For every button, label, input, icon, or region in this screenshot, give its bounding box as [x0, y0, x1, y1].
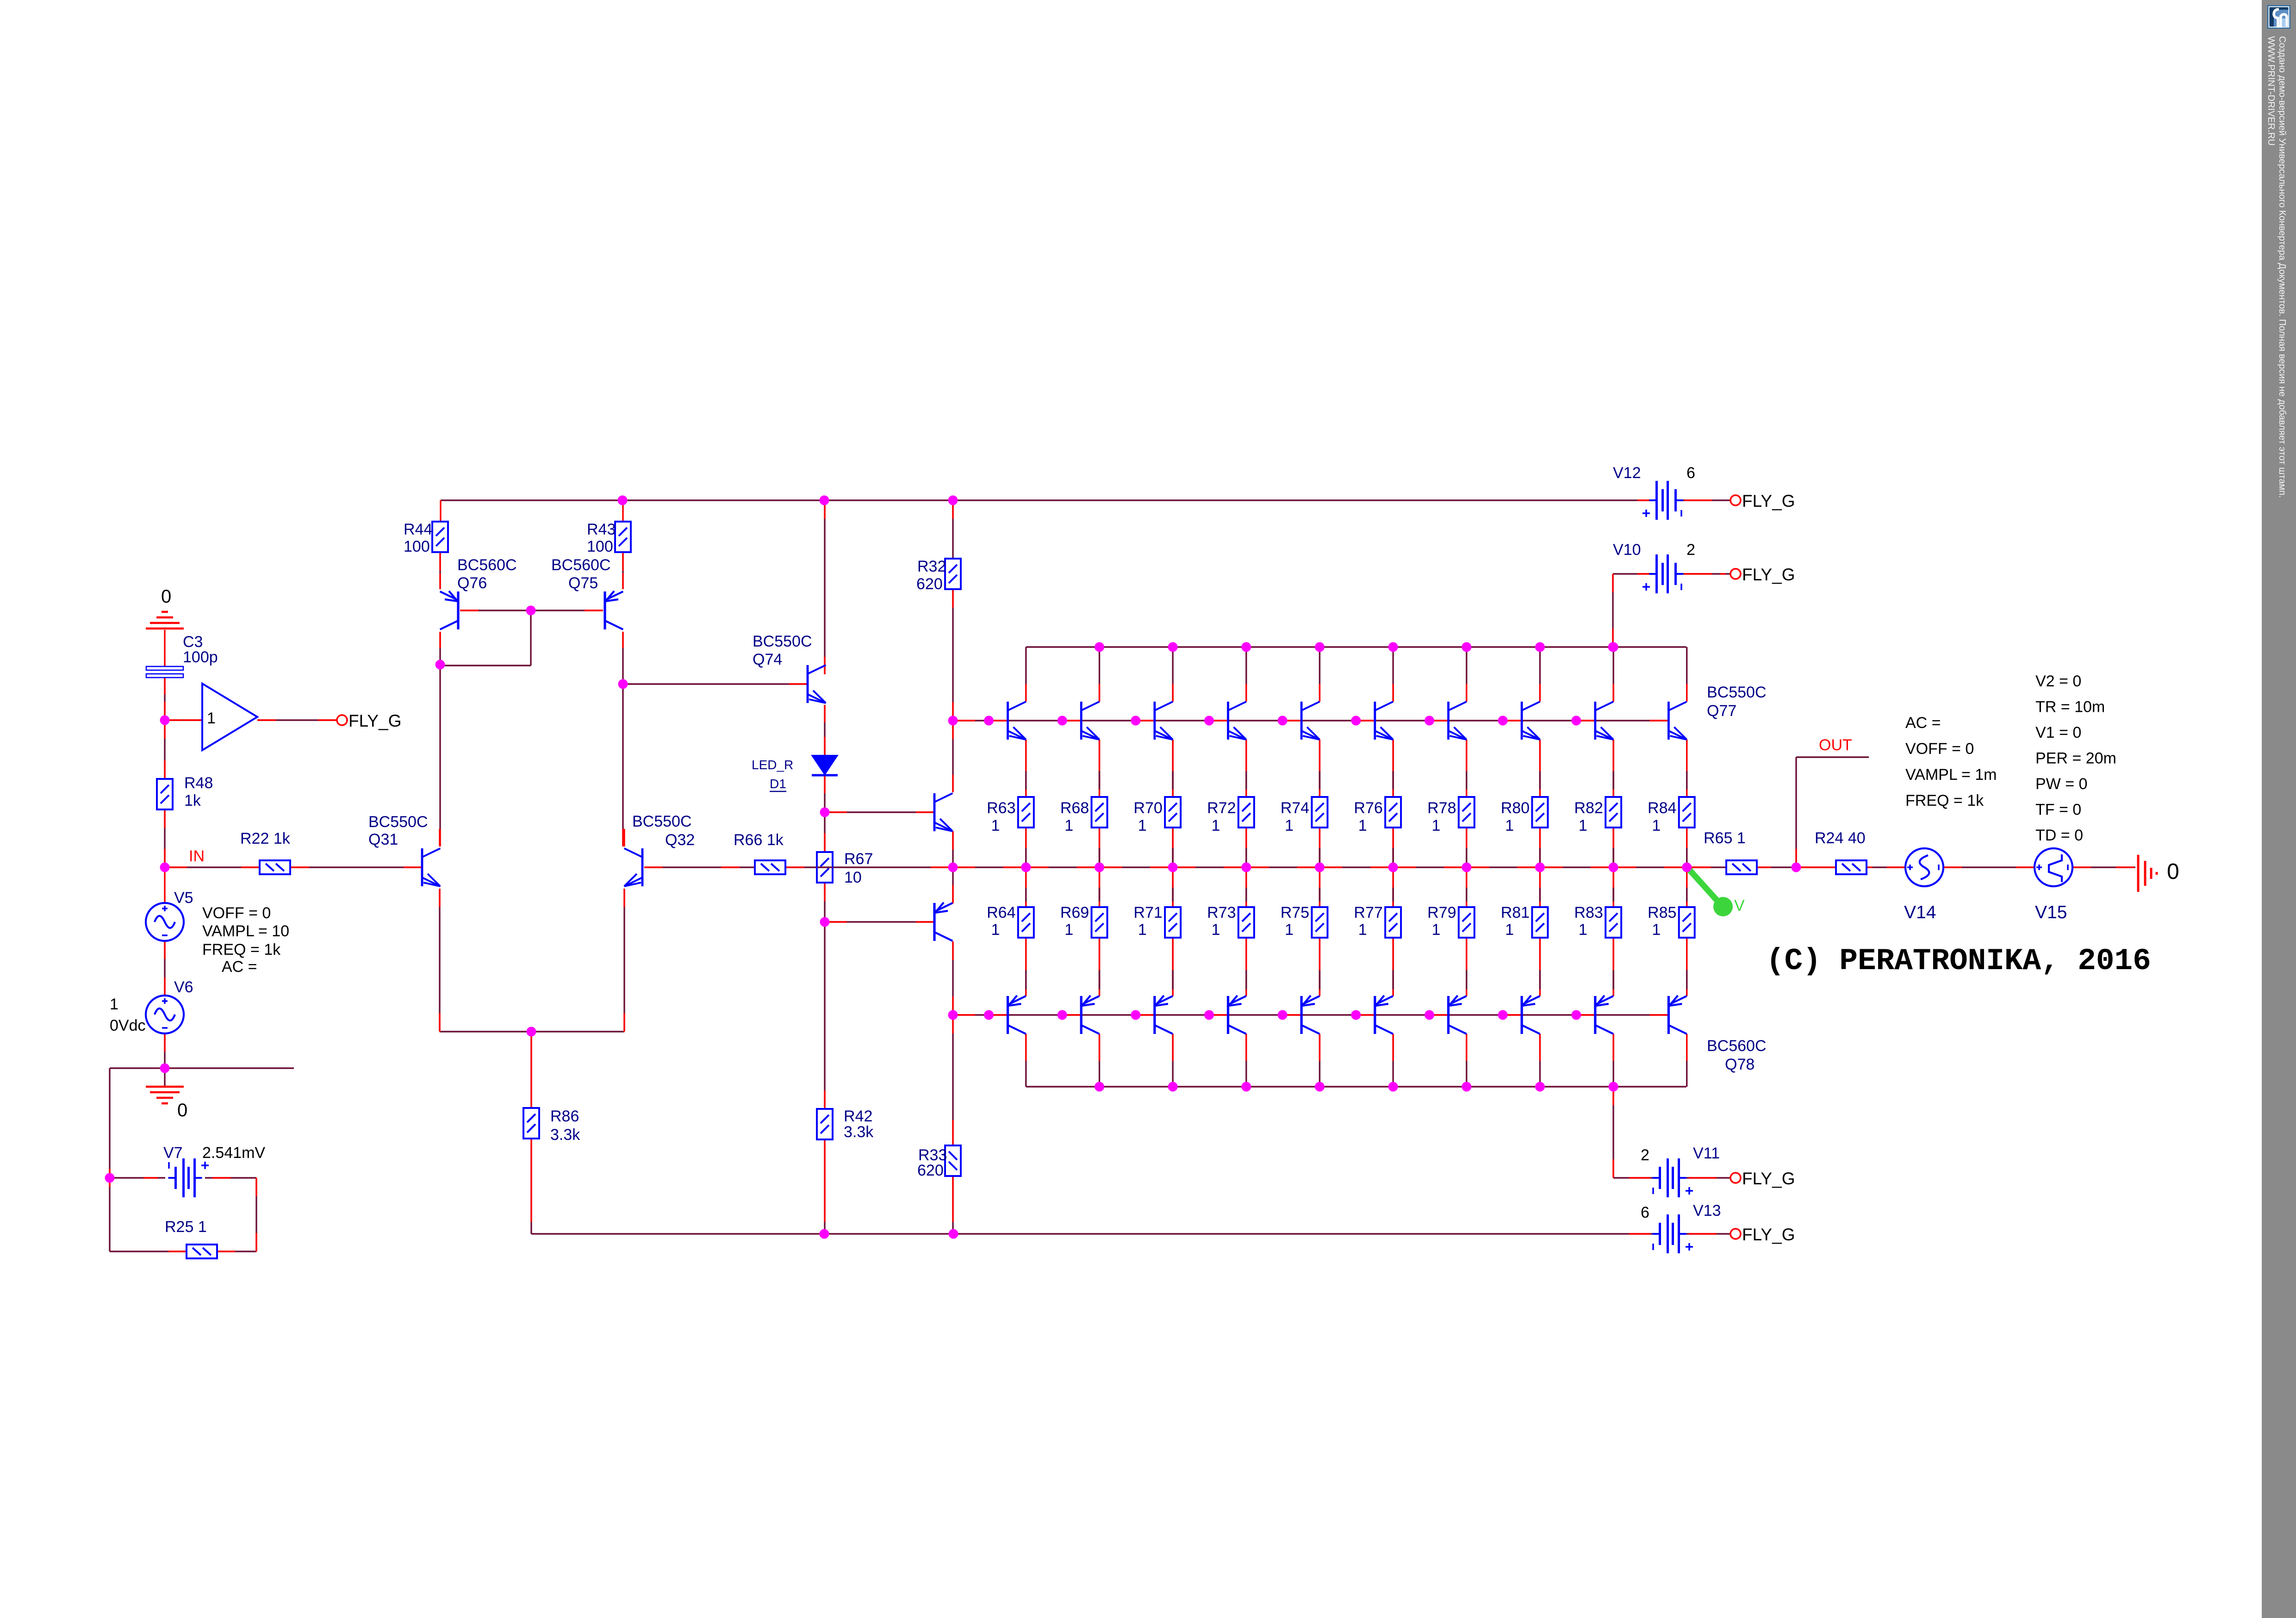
svg-text:BC560C: BC560C — [551, 556, 611, 574]
svg-text:620: 620 — [917, 1162, 944, 1179]
svg-text:R24 40: R24 40 — [1815, 829, 1866, 847]
svg-text:R43: R43 — [587, 521, 616, 538]
svg-text:R48: R48 — [184, 774, 213, 792]
svg-text:BC550C: BC550C — [1707, 684, 1767, 701]
svg-text:3.3k: 3.3k — [844, 1123, 874, 1141]
svg-text:D1: D1 — [770, 777, 786, 791]
svg-text:PW = 0: PW = 0 — [2035, 775, 2087, 793]
svg-text:R69: R69 — [1060, 904, 1089, 921]
svg-text:1: 1 — [1652, 817, 1661, 834]
svg-text:V12: V12 — [1613, 464, 1641, 482]
svg-text:R65 1: R65 1 — [1704, 829, 1746, 847]
svg-text:100: 100 — [404, 538, 430, 555]
svg-text:V7: V7 — [163, 1144, 183, 1162]
svg-text:V6: V6 — [174, 978, 193, 996]
svg-text:R72: R72 — [1207, 799, 1236, 817]
svg-text:R84: R84 — [1648, 799, 1676, 817]
svg-text:AC =: AC = — [1905, 714, 1941, 732]
svg-text:R67: R67 — [844, 850, 873, 868]
svg-text:1: 1 — [1064, 817, 1073, 834]
svg-text:0: 0 — [177, 1100, 187, 1120]
svg-text:R79: R79 — [1427, 904, 1456, 921]
svg-text:FLY_G: FLY_G — [1742, 1225, 1795, 1244]
svg-text:1: 1 — [1285, 817, 1294, 834]
svg-text:R66 1k: R66 1k — [734, 831, 784, 849]
svg-text:2: 2 — [1641, 1146, 1649, 1164]
svg-text:R64: R64 — [987, 904, 1015, 921]
svg-text:6: 6 — [1686, 464, 1695, 482]
svg-text:R77: R77 — [1354, 904, 1382, 921]
svg-text:V2 = 0: V2 = 0 — [2035, 672, 2081, 690]
svg-text:R85: R85 — [1648, 904, 1676, 921]
svg-text:1: 1 — [1505, 817, 1514, 834]
svg-text:1: 1 — [1212, 817, 1220, 834]
svg-text:1: 1 — [991, 921, 1000, 939]
svg-text:1: 1 — [1064, 921, 1073, 939]
svg-text:VOFF = 0: VOFF = 0 — [202, 904, 271, 922]
svg-text:1k: 1k — [184, 792, 201, 809]
svg-text:Q31: Q31 — [368, 831, 398, 848]
svg-text:R75: R75 — [1281, 904, 1309, 921]
svg-text:R44: R44 — [404, 521, 432, 538]
svg-text:R78: R78 — [1427, 799, 1456, 817]
svg-text:Q77: Q77 — [1707, 702, 1736, 720]
svg-text:R25 1: R25 1 — [165, 1218, 207, 1236]
svg-text:1: 1 — [1138, 921, 1147, 939]
svg-text:1: 1 — [991, 817, 1000, 834]
svg-text:(C) PERATRONIKA, 2016: (C) PERATRONIKA, 2016 — [1766, 944, 2151, 978]
svg-text:V10: V10 — [1613, 541, 1641, 559]
svg-text:LED_R: LED_R — [752, 758, 793, 772]
svg-text:Q74: Q74 — [753, 651, 782, 668]
svg-text:R86: R86 — [550, 1108, 579, 1125]
svg-text:V: V — [1734, 897, 1745, 915]
svg-text:1: 1 — [1432, 921, 1441, 939]
svg-text:1: 1 — [1432, 817, 1441, 834]
svg-text:2: 2 — [1686, 541, 1695, 559]
svg-text:R63: R63 — [987, 799, 1015, 817]
svg-text:1: 1 — [1212, 921, 1220, 939]
svg-text:R82: R82 — [1574, 799, 1603, 817]
svg-text:R74: R74 — [1281, 799, 1309, 817]
svg-text:0: 0 — [2167, 859, 2179, 884]
svg-text:1: 1 — [1285, 921, 1294, 939]
svg-text:Создано демо-версией Универсал: Создано демо-версией Универсального Конв… — [2277, 36, 2287, 498]
svg-text:Q76: Q76 — [457, 574, 487, 592]
svg-text:BC560C: BC560C — [1707, 1037, 1767, 1055]
svg-text:FREQ = 1k: FREQ = 1k — [1905, 792, 1984, 809]
svg-text:1: 1 — [1505, 921, 1514, 939]
svg-text:1: 1 — [1138, 817, 1147, 834]
svg-text:R83: R83 — [1574, 904, 1603, 921]
svg-text:TF = 0: TF = 0 — [2035, 801, 2081, 819]
svg-text:0Vdc: 0Vdc — [110, 1017, 146, 1034]
svg-text:V15: V15 — [2035, 902, 2067, 922]
svg-text:R73: R73 — [1207, 904, 1236, 921]
svg-text:620: 620 — [916, 575, 943, 593]
svg-text:WWW.PRINT-DRIVER.RU: WWW.PRINT-DRIVER.RU — [2266, 36, 2276, 146]
svg-text:1: 1 — [1358, 921, 1367, 939]
svg-text:VAMPL = 1m: VAMPL = 1m — [1905, 766, 1997, 784]
svg-text:TR = 10m: TR = 10m — [2035, 698, 2105, 716]
svg-text:VOFF = 0: VOFF = 0 — [1905, 740, 1974, 758]
svg-text:R42: R42 — [844, 1108, 872, 1125]
svg-text:V14: V14 — [1904, 902, 1936, 922]
svg-text:BC560C: BC560C — [457, 556, 517, 574]
svg-text:BC550C: BC550C — [753, 633, 812, 650]
svg-text:1: 1 — [110, 996, 118, 1013]
svg-text:1: 1 — [1358, 817, 1367, 834]
svg-text:1: 1 — [1579, 921, 1587, 939]
svg-text:6: 6 — [1641, 1204, 1649, 1221]
svg-text:VAMPL = 10: VAMPL = 10 — [202, 922, 289, 940]
svg-text:R80: R80 — [1501, 799, 1530, 817]
svg-text:BC550C: BC550C — [632, 813, 692, 830]
svg-text:Q32: Q32 — [665, 831, 695, 849]
svg-text:FLY_G: FLY_G — [1742, 565, 1795, 584]
svg-text:100p: 100p — [183, 648, 218, 666]
svg-text:R76: R76 — [1354, 799, 1382, 817]
svg-text:R32: R32 — [917, 558, 946, 575]
svg-text:V5: V5 — [174, 889, 193, 907]
svg-text:BC550C: BC550C — [368, 813, 428, 831]
svg-text:FLY_G: FLY_G — [348, 711, 401, 730]
svg-text:AC =: AC = — [222, 958, 257, 976]
svg-text:V11: V11 — [1693, 1145, 1720, 1162]
svg-text:FREQ = 1k: FREQ = 1k — [202, 941, 281, 958]
svg-text:0: 0 — [161, 586, 171, 607]
svg-text:V13: V13 — [1693, 1202, 1721, 1220]
svg-text:R71: R71 — [1133, 904, 1162, 921]
svg-text:R68: R68 — [1060, 799, 1089, 817]
svg-text:100: 100 — [587, 538, 613, 555]
svg-text:Q75: Q75 — [568, 574, 598, 592]
svg-text:R81: R81 — [1501, 904, 1530, 921]
svg-text:1: 1 — [1579, 817, 1587, 834]
svg-text:R70: R70 — [1133, 799, 1162, 817]
svg-text:R22 1k: R22 1k — [240, 830, 291, 847]
svg-text:V1 = 0: V1 = 0 — [2035, 724, 2081, 741]
svg-text:TD = 0: TD = 0 — [2035, 827, 2083, 844]
svg-text:PER = 20m: PER = 20m — [2035, 750, 2116, 767]
svg-text:10: 10 — [844, 869, 862, 886]
svg-text:OUT: OUT — [1819, 736, 1852, 754]
svg-text:IN: IN — [189, 847, 205, 865]
svg-text:Q78: Q78 — [1725, 1056, 1755, 1073]
svg-text:3.3k: 3.3k — [550, 1126, 580, 1144]
svg-text:1: 1 — [1652, 921, 1661, 939]
svg-text:FLY_G: FLY_G — [1742, 1169, 1795, 1188]
svg-text:FLY_G: FLY_G — [1742, 492, 1795, 510]
svg-text:1: 1 — [207, 709, 216, 727]
svg-text:2.541mV: 2.541mV — [202, 1144, 265, 1162]
